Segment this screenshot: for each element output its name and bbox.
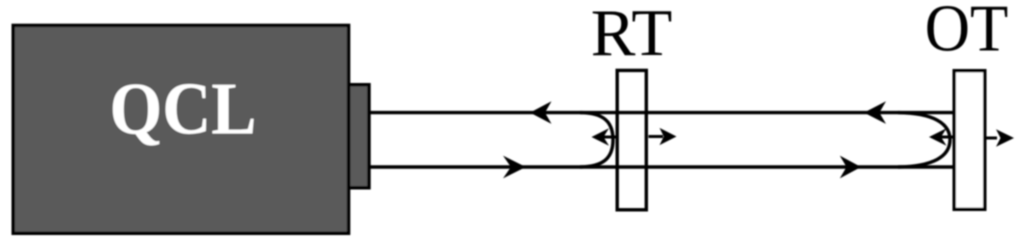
wire top beam line [370,111,953,114]
arrow right on bottom line RT-OT [840,156,861,179]
wire U-turn loop at RT [580,113,613,167]
wire U-turn loop at OT [898,113,950,167]
arrow left on top line QCL-RT [530,101,552,124]
arrow small right after RT [649,135,664,138]
wire bottom beam line [370,165,953,168]
arrow small right after OT [987,137,998,140]
arrow small left at OT face [940,136,953,139]
OT plate [954,71,985,210]
QCL laser box [13,25,348,233]
arrow left on top line RT-OT [864,101,886,124]
RT plate [617,70,646,209]
arrow small left at RT face [603,136,617,139]
svg-text:RT: RT [591,0,673,70]
QCL facet stub [349,85,369,188]
arrow right on bottom line QCL-RT [503,156,526,179]
svg-text:QCL: QCL [110,69,257,151]
svg-text:OT: OT [925,0,1009,66]
